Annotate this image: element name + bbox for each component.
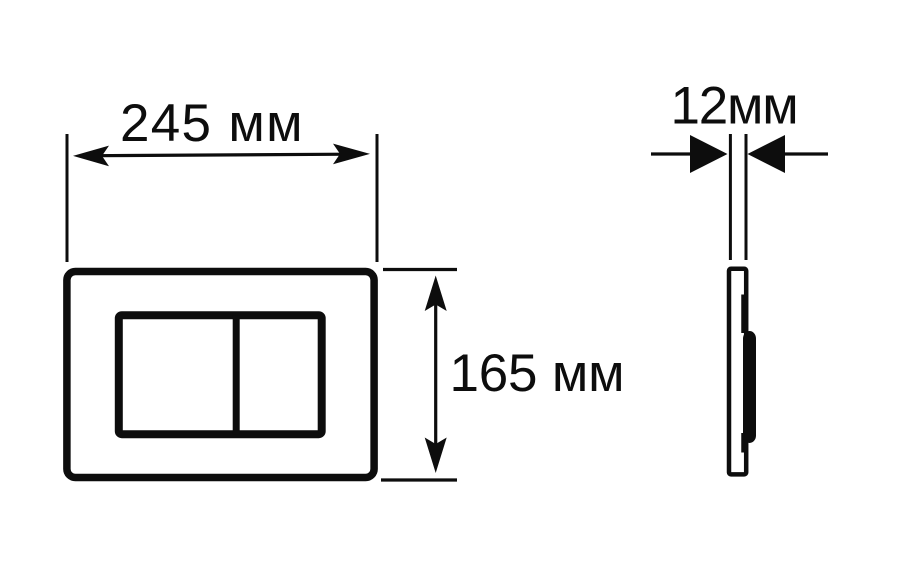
extension line top of 165 dimension: [383, 268, 457, 271]
svg-text:165 мм: 165 мм: [450, 344, 625, 403]
extension line right of 12мм thickness: [745, 134, 748, 260]
svg-text:12мм: 12мм: [671, 77, 798, 136]
arrowhead left of 245 dimension: [73, 146, 109, 167]
button panel inner frame: [119, 315, 322, 434]
extension line left of 245 dimension: [66, 134, 69, 262]
arrowhead pointing right at 12мм: [690, 135, 728, 173]
button divider line: [233, 315, 240, 434]
dimension line right of 12мм: [785, 152, 828, 155]
side view button protrusion: [743, 331, 756, 443]
dimension line 165: [434, 300, 437, 450]
extension line left of 12мм thickness: [729, 134, 732, 260]
side view upper inner edge: [741, 295, 745, 334]
arrowhead pointing left at 12мм: [748, 135, 786, 173]
extension line bottom of 165 dimension: [381, 478, 457, 481]
arrowhead bottom of 165 dimension: [425, 438, 447, 474]
side view lower inner edge: [741, 433, 745, 453]
svg-text:245 мм: 245 мм: [120, 94, 304, 153]
extension line right of 245 dimension: [376, 134, 379, 262]
flush plate front view outer frame: [67, 272, 374, 478]
dimension line left of 12мм: [651, 152, 693, 155]
flush plate side view body: [729, 269, 746, 475]
arrowhead top of 165 dimension: [425, 276, 447, 312]
arrowhead right of 245 dimension: [333, 144, 370, 165]
dimension line 245: [95, 154, 348, 156]
